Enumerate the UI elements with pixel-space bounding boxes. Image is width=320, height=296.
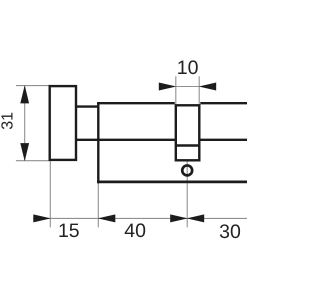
svg-text:31: 31 xyxy=(0,112,16,130)
svg-text:10: 10 xyxy=(177,57,199,79)
svg-text:15: 15 xyxy=(58,220,80,242)
svg-text:40: 40 xyxy=(124,220,146,242)
svg-text:30: 30 xyxy=(219,221,241,243)
